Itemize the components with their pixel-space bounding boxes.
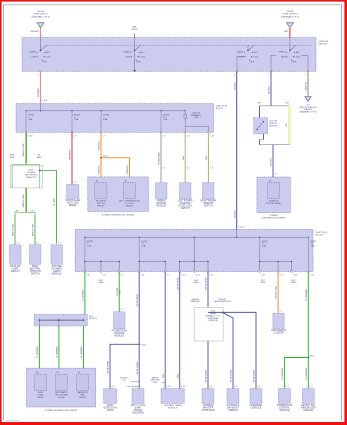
wire LT GRN/RED JB2 to PCM — [118, 272, 120, 312]
wire DK BLU/ORG to clutch circuit — [270, 71, 272, 106]
svg-text:CONSOLE: CONSOLE — [250, 408, 262, 410]
svg-text:C 2: C 2 — [162, 135, 165, 137]
svg-text:USED: USED — [193, 282, 199, 284]
svg-text:C 13: C 13 — [209, 275, 213, 277]
svg-text:SWITCH: SWITCH — [11, 271, 20, 273]
branch continue — [307, 358, 309, 389]
svg-text:C 1: C 1 — [36, 243, 39, 245]
svg-text:86: 86 — [96, 181, 98, 183]
svg-text:ABS: ABS — [37, 156, 42, 159]
svg-text:CONSOLE): CONSOLE) — [208, 320, 219, 322]
svg-text:1: 1 — [268, 75, 269, 77]
wire DK BLU ignition to JB2 — [236, 71, 238, 229]
wire to auto day/night mirror — [222, 312, 233, 388]
svg-text:DK BLU: DK BLU — [234, 210, 236, 218]
svg-text:DK BLU/PNK: DK BLU/PNK — [137, 293, 139, 306]
connector triangle A1 — [37, 23, 44, 29]
JB2 exit pins — [84, 271, 86, 273]
svg-text:BLOCK: BLOCK — [216, 108, 224, 110]
JB2 lower bus segments — [85, 261, 119, 263]
wire DK BLU/YEL to starter relay — [272, 145, 274, 177]
svg-text:LOCK: LOCK — [295, 57, 301, 59]
svg-text:2.4L: 2.4L — [122, 380, 126, 382]
svg-text:FEED: FEED — [132, 29, 138, 31]
svg-text:LT GRN/RED: LT GRN/RED — [282, 367, 284, 380]
svg-text:(TAKEOUT): (TAKEOUT) — [26, 176, 37, 179]
svg-text:LOCK: LOCK — [253, 57, 259, 59]
svg-text:C 6: C 6 — [73, 135, 76, 137]
svg-text:BRN/LT GRN: BRN/LT GRN — [13, 223, 15, 235]
svg-text:DISTRIBUTION CENTER: DISTRIBUTION CENTER — [262, 218, 286, 220]
svg-text:ACC: ACC — [254, 51, 259, 54]
svg-text:ORG/BLK: ORG/BLK — [127, 165, 129, 175]
svg-text:86: 86 — [269, 180, 271, 182]
svg-text:LT GRN/RED: LT GRN/RED — [306, 367, 308, 380]
wire PNK/BLK feed — [39, 28, 41, 38]
powertrain control module right box — [278, 389, 290, 404]
svg-text:20A: 20A — [194, 116, 198, 119]
svg-text:DK BLU/WHT: DK BLU/WHT — [159, 151, 161, 165]
svg-text:RELAY: RELAY — [37, 396, 44, 399]
wire LT GRN/RED JB2 F8 long — [307, 272, 309, 358]
svg-text:CLUSTER: CLUSTER — [273, 333, 284, 335]
wire to overhead console — [222, 312, 256, 388]
svg-text:BRN/LT GRN: BRN/LT GRN — [33, 223, 35, 235]
splice bar bottom of clutch circuit — [260, 144, 290, 146]
svg-text:USED: USED — [260, 282, 266, 284]
svg-text:OFF: OFF — [137, 62, 142, 64]
wire TAN to left power window switch — [184, 132, 186, 182]
connector triangle A2 — [287, 23, 294, 29]
duty cycle evap purge solenoid box — [132, 389, 144, 404]
svg-text:DK BLU/PNK: DK BLU/PNK — [206, 369, 208, 382]
svg-text:ACC: ACC — [46, 51, 51, 54]
wire PNK JB2 to central timer module — [164, 272, 166, 389]
wire PNK 2 to central timer module — [179, 272, 181, 389]
svg-text:LT GRN/BLK: LT GRN/BLK — [83, 288, 85, 301]
svg-text:10A: 10A — [163, 118, 167, 121]
svg-text:BRN/YEL: BRN/YEL — [306, 81, 308, 91]
clutch pedal position switch box — [254, 118, 268, 134]
svg-text:ABS: ABS — [10, 156, 15, 159]
clutch branch wire — [259, 106, 261, 118]
central timer module box — [161, 389, 184, 404]
busbar bus line — [39, 319, 83, 321]
svg-text:10A: 10A — [87, 245, 91, 248]
svg-text:C 9: C 9 — [102, 275, 105, 277]
fuse F3 JB1 — [100, 110, 101, 111]
power distribution center box 2 — [27, 368, 96, 407]
fuse F7 JB2 — [259, 237, 260, 238]
M/T A/T splice bar — [260, 105, 290, 107]
wire to PNP switch — [34, 215, 36, 245]
svg-text:C 7: C 7 — [102, 135, 105, 137]
svg-text:MODULE: MODULE — [280, 410, 290, 412]
svg-text:FROM: FROM — [37, 11, 43, 13]
svg-text:C 6: C 6 — [121, 275, 124, 277]
svg-text:MODULE: MODULE — [168, 408, 178, 410]
svg-text:86: 86 — [36, 372, 38, 374]
svg-text:DK BLU/PNK: DK BLU/PNK — [108, 360, 110, 373]
fuse F8 JB2 — [308, 237, 309, 238]
power distribution center box 3 — [257, 177, 291, 213]
svg-text:4: 4 — [38, 75, 39, 77]
wire BRN/LT GRN from JB1 — [24, 132, 26, 163]
svg-text:DK BLU/PNK: DK BLU/PNK — [231, 369, 233, 382]
svg-text:C 11: C 11 — [141, 275, 145, 277]
wire BAT feed stub — [134, 34, 136, 38]
JB2 exit drops — [84, 262, 86, 272]
wire YEL A/T branch — [288, 106, 290, 145]
svg-text:MIRROR: MIRROR — [228, 410, 237, 412]
svg-text:PNK/BLK: PNK/BLK — [38, 87, 40, 96]
svg-text:C 8: C 8 — [86, 275, 89, 277]
JB1 exit pins — [25, 131, 27, 133]
fuse F1 JB1 — [25, 110, 26, 111]
park/neutral position switch box — [30, 245, 42, 264]
svg-text:10A: 10A — [141, 245, 145, 248]
svg-text:SOLENOID: SOLENOID — [132, 413, 144, 415]
svg-text:BRN/LT GRN: BRN/LT GRN — [23, 143, 25, 156]
ignition switch section 3 — [248, 45, 254, 50]
splice S211 — [307, 357, 309, 359]
back-up lamp switch box — [10, 245, 22, 264]
svg-text:C 16: C 16 — [310, 275, 314, 277]
a/c compressor clutch relay box — [123, 183, 135, 199]
svg-text:2.4L: 2.4L — [127, 386, 131, 388]
wire DK BLU/PNK JB2 F6 down — [138, 272, 140, 345]
wire LT GRN/BLK drop 1 — [38, 326, 40, 374]
daytime running lamps module box — [51, 245, 63, 264]
svg-text:LT GRN/BLK: LT GRN/BLK — [81, 345, 83, 358]
inner gray drawing border — [3, 4, 342, 6]
svg-text:C 21: C 21 — [261, 275, 265, 277]
blower motor relay box — [95, 183, 107, 199]
svg-text:START: START — [29, 51, 36, 54]
radiator fan relay box — [77, 374, 89, 390]
svg-text:START: START — [237, 51, 244, 54]
wire to back-up lamp switch — [14, 215, 16, 245]
fuse F6 JB2 — [139, 237, 140, 238]
svg-text:GAUGE NEEDLES: GAUGE NEEDLES — [214, 300, 232, 303]
switch 4 ACC output tap — [302, 55, 309, 71]
svg-text:MODULE: MODULE — [303, 410, 313, 412]
svg-text:USED: USED — [98, 282, 104, 284]
compass mini-trip computer box — [202, 389, 214, 404]
S201 splice box — [10, 165, 42, 188]
svg-text:COMPUTER: COMPUTER — [202, 410, 215, 412]
svg-text:C 1: C 1 — [58, 243, 61, 245]
svg-text:TAN: TAN — [182, 156, 185, 161]
overhead console box — [250, 389, 262, 404]
svg-text:START: START — [278, 51, 285, 54]
pin rings ignition box — [40, 70, 42, 72]
svg-text:10A: 10A — [311, 245, 315, 248]
svg-text:DK BLU: DK BLU — [234, 82, 236, 90]
svg-text:DK BLU/PNK: DK BLU/PNK — [137, 361, 139, 374]
svg-text:LT GRN/BLK: LT GRN/BLK — [37, 345, 39, 358]
splice S201 dot — [39, 170, 41, 172]
switch 2 output dot on box edge — [134, 51, 136, 72]
right power window switch box — [203, 183, 215, 200]
svg-text:IGNITION: IGNITION — [319, 41, 329, 43]
ignition switch section 2 — [134, 38, 136, 51]
svg-text:RELAY: RELAY — [97, 205, 105, 208]
junction block JB1 — [16, 104, 214, 133]
svg-text:(DIAGRAM 1 OF 2): (DIAGRAM 1 OF 2) — [281, 15, 299, 18]
svg-text:C 14: C 14 — [196, 275, 200, 277]
svg-text:SWITCH: SWITCH — [269, 125, 277, 127]
wire RED/WHT from JB1 — [71, 132, 73, 184]
svg-text:MODULE: MODULE — [52, 273, 62, 275]
svg-text:ACC: ACC — [140, 51, 145, 54]
svg-text:C 19: C 19 — [279, 275, 283, 277]
wire BRN to junction block page2 — [307, 71, 309, 96]
svg-text:BAT: BAT — [132, 25, 137, 28]
fuse F5 JB2 — [84, 237, 85, 238]
svg-text:USED: USED — [291, 282, 297, 284]
svg-text:FUSE 10 (PDC): FUSE 10 (PDC) — [283, 14, 298, 16]
svg-text:TAN: TAN — [205, 156, 208, 161]
A/T M/T fork — [15, 212, 35, 214]
svg-text:LOCK: LOCK — [45, 57, 51, 59]
svg-text:SWITCH: SWITCH — [31, 273, 40, 275]
splice S202 dot — [222, 312, 224, 314]
switch 4 START output tap — [271, 55, 276, 71]
branch to PCM right — [284, 358, 308, 389]
wire BRN/LT GRN below S201 — [24, 188, 26, 213]
wire RED feed — [289, 28, 291, 38]
left power window switch box — [180, 183, 192, 200]
wire DK BLU/WHT from JB1 to airbag — [160, 132, 162, 182]
controller antilock brake box — [67, 185, 80, 199]
fuse F4 JB1 — [160, 110, 161, 111]
ignition switch section 4 — [289, 38, 291, 51]
svg-text:LT GRN: LT GRN — [54, 198, 56, 206]
svg-text:3: 3 — [305, 75, 306, 77]
JB1 internal bus — [26, 110, 185, 112]
svg-text:(DIAGRAM 1 OF 4): (DIAGRAM 1 OF 4) — [31, 15, 49, 18]
svg-text:(DIAGRAM 1 OF 2): (DIAGRAM 1 OF 2) — [299, 111, 317, 114]
svg-text:ORG/BLK: ORG/BLK — [99, 165, 101, 175]
JB2 top bus — [85, 236, 308, 238]
svg-text:ONLY: ONLY — [152, 382, 158, 384]
CB jog to second output — [185, 127, 208, 133]
svg-text:C 100: C 100 — [42, 100, 48, 102]
svg-text:PNK: PNK — [163, 373, 165, 378]
svg-text:SWITCH: SWITCH — [319, 44, 328, 46]
svg-text:DK BLU/PNK: DK BLU/PNK — [206, 277, 208, 290]
S202 splice box — [194, 308, 223, 342]
red page border frame — [0, 0, 347, 2]
svg-text:RED: RED — [120, 289, 122, 294]
svg-text:MODULE: MODULE — [156, 206, 166, 208]
svg-text:C 100: C 100 — [27, 135, 32, 137]
svg-text:NEEDLES: NEEDLES — [191, 301, 201, 303]
svg-text:eautorepair.net: eautorepair.net — [6, 419, 20, 422]
svg-text:RUN: RUN — [32, 56, 37, 58]
starter motor relay box — [268, 182, 280, 198]
wire LT GRN/BLK drop 2 — [58, 326, 60, 374]
svg-text:86: 86 — [125, 181, 127, 183]
svg-text:RED: RED — [284, 31, 289, 33]
ignition switch section 1 — [39, 38, 41, 51]
svg-text:PNK: PNK — [177, 373, 179, 378]
wire ORG/BLK from JB1 — [100, 132, 102, 158]
instrument cluster box — [273, 313, 284, 328]
splice S129 — [100, 157, 102, 159]
svg-text:DK BLU: DK BLU — [271, 158, 273, 166]
svg-text:OFF: OFF — [292, 62, 297, 64]
svg-text:START: START — [123, 51, 130, 54]
svg-text:6: 6 — [42, 36, 43, 38]
wire PNK/BLK ignition to JB1 — [39, 71, 41, 103]
wire branch to evap pump — [110, 344, 139, 388]
power distribution center box 1 — [88, 177, 149, 212]
evap leak detection pump box — [104, 389, 117, 404]
svg-text:RELAY: RELAY — [58, 396, 65, 399]
svg-text:POWER DISTRIBUTION CENTER: POWER DISTRIBUTION CENTER — [45, 410, 78, 412]
svg-text:PNK/BLK: PNK/BLK — [30, 31, 39, 33]
auto day/night mirror box — [227, 389, 239, 404]
svg-text:RELAY: RELAY — [79, 396, 86, 399]
wire LT GRN/BLK JB2 to busbar — [84, 272, 86, 315]
busbar JB-1 box — [34, 314, 87, 326]
svg-text:C 10: C 10 — [210, 135, 214, 137]
svg-text:DK BLU: DK BLU — [269, 86, 271, 94]
svg-text:86: 86 — [57, 372, 59, 374]
fuse F2 JB1 — [71, 110, 72, 111]
svg-text:MODULE: MODULE — [114, 335, 124, 337]
svg-text:RUN: RUN — [126, 56, 131, 58]
svg-text:SWITCH: SWITCH — [181, 208, 190, 210]
busbar drops — [38, 320, 40, 326]
svg-text:DK BLU/PNK: DK BLU/PNK — [177, 277, 179, 290]
mechanical linkage dashed line — [47, 44, 312, 46]
wire LT GRN/BLK drop 3 — [83, 326, 85, 374]
svg-text:POWER DISTRIBUTION CENTER: POWER DISTRIBUTION CENTER — [102, 214, 135, 216]
sentry key immobilizer box — [302, 389, 314, 404]
wire ORG jog to AC relay — [101, 158, 130, 182]
wire LT GRN from S201 to DRL module — [40, 171, 57, 244]
svg-text:MOTOR RELAY: MOTOR RELAY — [266, 202, 282, 205]
svg-text:LT GRN/: LT GRN/ — [117, 288, 119, 296]
auto shutdown relay box — [56, 374, 68, 390]
airbag control module box — [156, 183, 168, 200]
splice S310 — [138, 343, 140, 345]
svg-text:C 20: C 20 — [293, 275, 297, 277]
svg-text:BRAKE: BRAKE — [69, 204, 77, 207]
svg-text:15A: 15A — [28, 118, 32, 121]
svg-text:LOCK: LOCK — [139, 57, 145, 59]
wire continue to purge solenoid — [138, 344, 140, 388]
svg-text:LT GRN/BLK: LT GRN/BLK — [57, 345, 59, 358]
svg-text:BLOCK: BLOCK — [316, 234, 324, 236]
junction block JB2 — [75, 229, 313, 271]
svg-text:C 103: C 103 — [238, 226, 244, 228]
wire TAN to right power window switch — [207, 132, 209, 182]
svg-text:FUSE 5 (PDC): FUSE 5 (PDC) — [34, 14, 48, 16]
svg-text:FROM: FROM — [287, 11, 293, 13]
svg-text:5: 5 — [234, 75, 235, 77]
svg-text:RUN: RUN — [239, 56, 244, 58]
svg-text:ACC: ACC — [296, 51, 301, 54]
svg-text:10A: 10A — [262, 245, 266, 248]
svg-text:LT GRN/RED: LT GRN/RED — [306, 288, 308, 301]
svg-text:10A: 10A — [103, 118, 107, 121]
svg-text:C 12: C 12 — [181, 275, 185, 277]
ignition switch box — [22, 38, 316, 72]
connector triangle A3 — [305, 97, 311, 102]
svg-text:BRN/LT GRN: BRN/LT GRN — [23, 194, 25, 207]
svg-text:C 3: C 3 — [187, 135, 190, 137]
svg-text:OFF: OFF — [250, 62, 255, 64]
svg-text:OFF: OFF — [42, 62, 47, 64]
clutch box output — [263, 134, 265, 140]
svg-text:C 1: C 1 — [16, 243, 19, 245]
svg-text:C 7: C 7 — [167, 275, 170, 277]
powertrain control module box — [114, 312, 126, 329]
fuel pump relay box — [35, 374, 47, 390]
svg-text:RED/WHT: RED/WHT — [70, 149, 72, 159]
svg-text:RELAY: RELAY — [126, 205, 134, 208]
svg-text:86: 86 — [78, 372, 80, 374]
svg-text:10A: 10A — [74, 118, 78, 121]
wire ORG JB2 to instrument cluster — [277, 272, 279, 314]
svg-text:DK BLU/PNK: DK BLU/PNK — [254, 369, 256, 382]
svg-text:SWITCH: SWITCH — [204, 206, 213, 208]
svg-text:ORG/LT GRN: ORG/LT GRN — [276, 286, 278, 299]
switch 3 RUN output tap — [237, 56, 244, 71]
svg-text:ORG/BLK: ORG/BLK — [99, 141, 101, 151]
svg-text:(IN PDC): (IN PDC) — [89, 318, 97, 320]
S201 variant fork — [12, 165, 40, 167]
svg-text:2: 2 — [291, 36, 292, 38]
wire DK BLU/PNK JB2 to S202 — [207, 272, 209, 389]
svg-text:RUN: RUN — [281, 56, 286, 58]
svg-text:PUMP: PUMP — [107, 410, 114, 412]
circuit breaker JB1 — [185, 110, 186, 111]
